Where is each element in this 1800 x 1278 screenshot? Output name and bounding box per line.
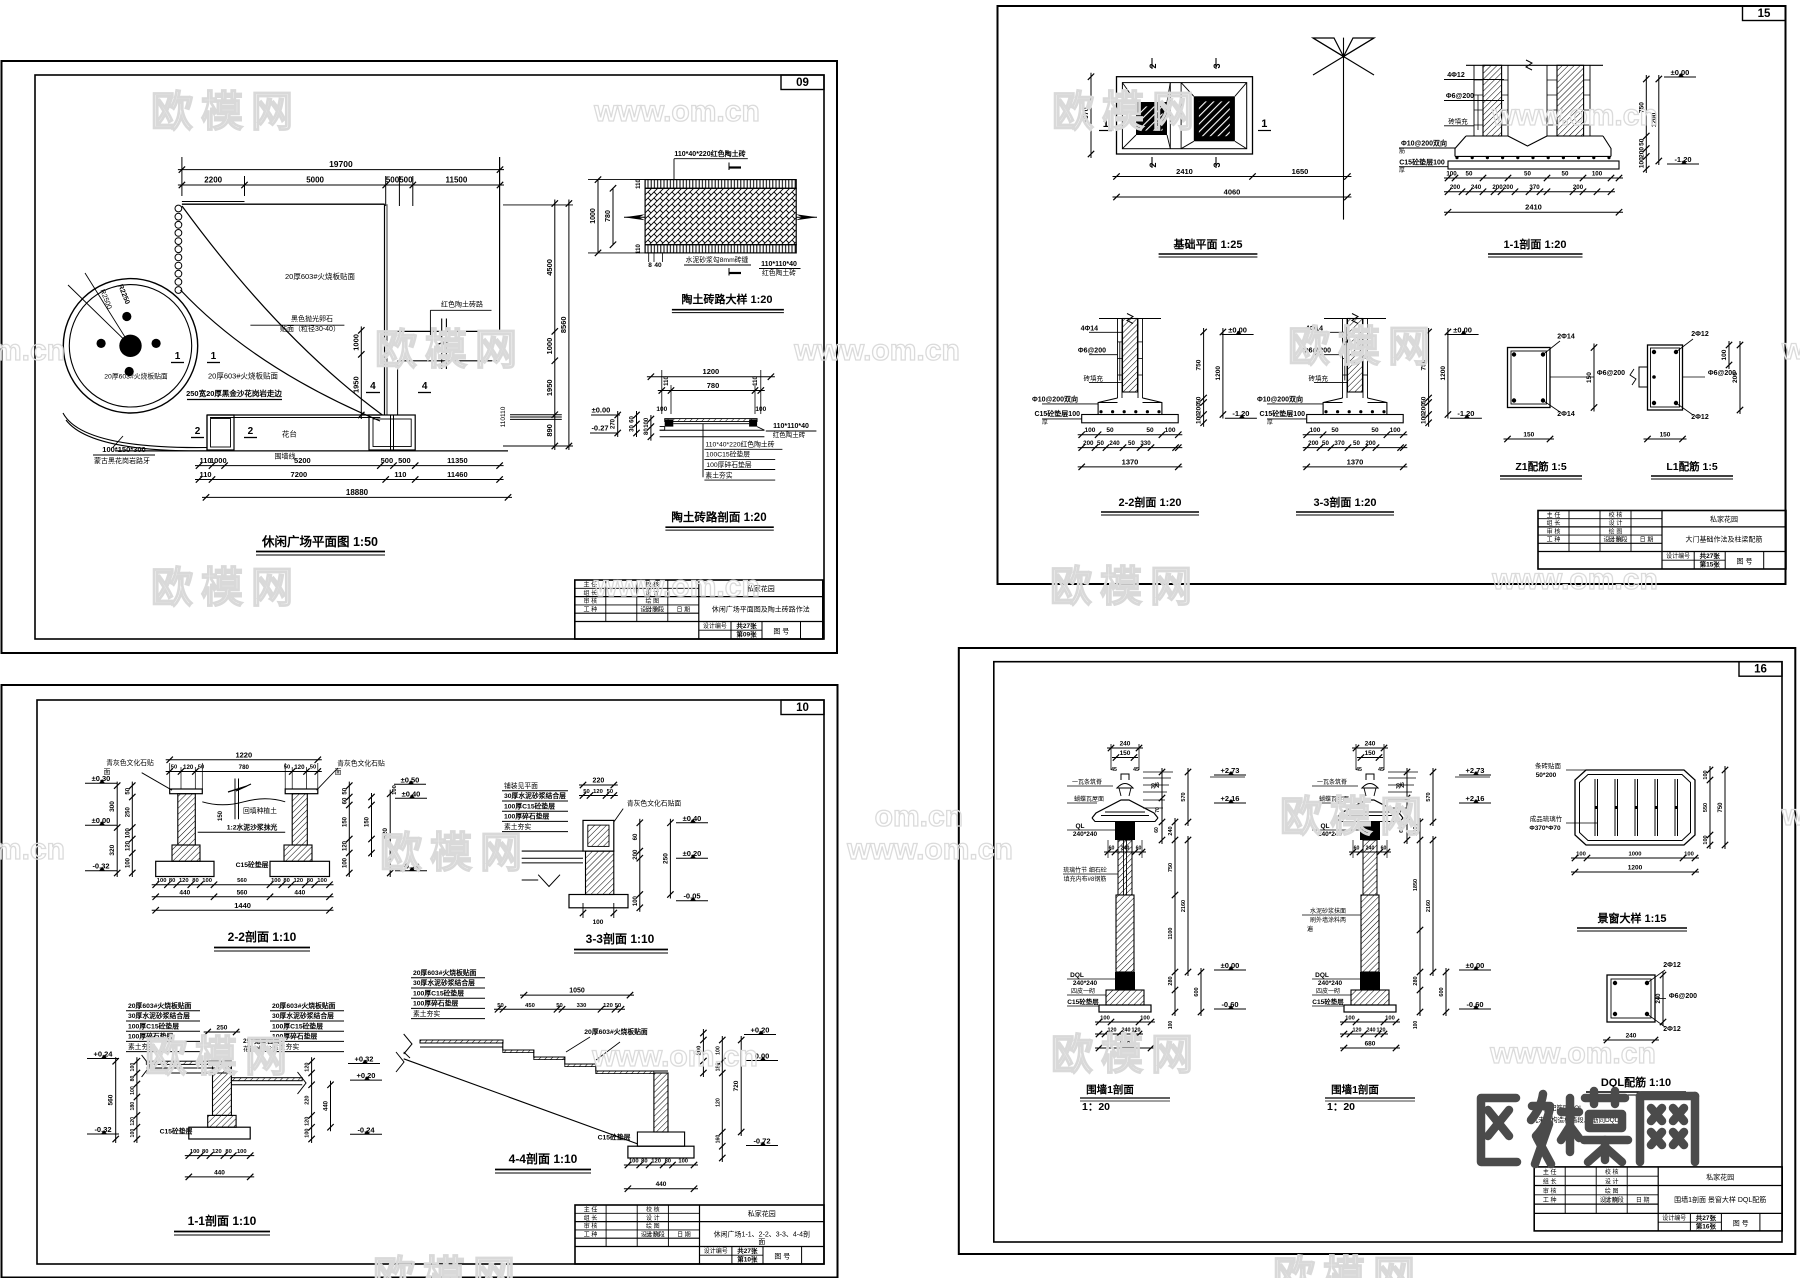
- svg-text:100: 100: [1592, 171, 1603, 178]
- 2-2 label 青灰色文化石贴面 right: [317, 759, 385, 791]
- bedding slab: [1307, 415, 1404, 423]
- svg-text:绘 图: 绘 图: [1609, 527, 1623, 535]
- svg-text:成品琉璃竹: 成品琉璃竹: [1530, 814, 1563, 823]
- svg-text:45: 45: [1356, 767, 1362, 773]
- label 红色陶土砖路 with leader: [430, 300, 491, 336]
- svg-text:500: 500: [381, 456, 394, 465]
- planter right post (path crossing): [369, 415, 415, 450]
- svg-text:红色陶土砖: 红色陶土砖: [762, 268, 796, 277]
- svg-text:370: 370: [1334, 440, 1345, 447]
- bedding slab: [1082, 415, 1179, 423]
- svg-text:花台: 花台: [282, 429, 297, 439]
- svg-text:欧模网: 欧模网: [373, 1253, 523, 1278]
- paving section top dims 1200/780/110: [647, 367, 775, 414]
- svg-text:280: 280: [1413, 976, 1419, 985]
- column formwork side lines: [1118, 319, 1143, 399]
- sheet 15 border: [998, 6, 1786, 584]
- 1-1 right dim chains: [1638, 68, 1699, 173]
- brick detail dims 8 40: [648, 253, 662, 269]
- svg-text:2Φ12: 2Φ12: [1663, 962, 1681, 969]
- svg-text:200: 200: [633, 849, 639, 860]
- svg-text:遍: 遍: [1307, 925, 1313, 933]
- svg-text:80: 80: [169, 878, 175, 884]
- svg-text:200: 200: [1732, 372, 1739, 383]
- svg-text:240: 240: [1120, 741, 1131, 748]
- wall column roof: [1337, 800, 1403, 822]
- labels 琉璃竹节/填充细石砼: [1063, 866, 1118, 883]
- svg-text:www.om.cn: www.om.cn: [846, 833, 1013, 866]
- svg-text:50: 50: [284, 765, 290, 771]
- svg-text:50: 50: [1353, 440, 1360, 447]
- 2-2 left footing: [156, 861, 214, 876]
- svg-text:水泥砂浆抹面: 水泥砂浆抹面: [1310, 907, 1346, 915]
- 2-2 label 1:2水泥沙浆抹光: [198, 823, 286, 833]
- svg-text:680: 680: [1365, 1041, 1376, 1048]
- label C15砼垫层100厚: [1034, 409, 1081, 426]
- svg-text:8560: 8560: [559, 316, 568, 333]
- sheet number box: [781, 75, 824, 90]
- title block sheet numbers: [1666, 551, 1752, 568]
- svg-text:2: 2: [195, 426, 201, 437]
- svg-text:20厚603#火烧板贴面: 20厚603#火烧板贴面: [413, 968, 477, 977]
- bottom dim row1: [1078, 434, 1183, 436]
- svg-text:11500: 11500: [445, 176, 467, 185]
- svg-text:100: 100: [656, 406, 667, 413]
- svg-text:120: 120: [651, 1159, 661, 1165]
- svg-text:100: 100: [125, 857, 131, 868]
- sheet 09 outer border: [2, 61, 838, 653]
- brick detail flow arrows: [624, 214, 817, 220]
- brick detail label 110*110*40红色陶土砖: [759, 261, 801, 277]
- svg-text:220: 220: [305, 1096, 311, 1105]
- svg-text:3: 3: [1212, 162, 1222, 167]
- column shaft hatched core: [1123, 319, 1138, 393]
- svg-text:100厚碎石垫层: 100厚碎石垫层: [706, 460, 752, 469]
- 4-4 slope underside line: [396, 1052, 637, 1144]
- 4-4 top dims 1050 and 50/450/50/330/120/50: [494, 988, 634, 1013]
- svg-text:陶土砖路大样 1:20: 陶土砖路大样 1:20: [681, 292, 772, 306]
- svg-text:Φ6@200: Φ6@200: [1669, 993, 1697, 1000]
- svg-text:第16张: 第16张: [1696, 1221, 1717, 1230]
- svg-text:欧模网: 欧模网: [1051, 1031, 1201, 1078]
- svg-text:厚: 厚: [1042, 419, 1048, 426]
- label 蝴蝶瓦屋面: [1067, 795, 1104, 803]
- svg-text:蒙古黑花岗岩路牙: 蒙古黑花岗岩路牙: [94, 456, 150, 465]
- brick detail left dims 1000/780/110: [588, 176, 650, 256]
- svg-text:3-3剖面 1:20: 3-3剖面 1:20: [1314, 495, 1377, 509]
- svg-text:C15砼垫层100: C15砼垫层100: [1034, 409, 1080, 418]
- 2-2 top dim row2 50/120/50 780 50/120/50: [166, 764, 322, 775]
- plaza plan top dimension row 2200/5000/500/500/11500: [178, 176, 504, 207]
- 1-1 section top line with break: [1466, 60, 1603, 70]
- svg-text:250: 250: [662, 853, 669, 864]
- svg-text:100: 100: [1309, 427, 1320, 434]
- L1 rebar detail: [1630, 331, 1743, 442]
- plaza main circle (double ring): [63, 279, 197, 413]
- svg-text:5200: 5200: [294, 456, 311, 465]
- 4-4 bottom dims: [624, 1159, 698, 1192]
- wall column QL beam (black): [1360, 822, 1380, 840]
- wall section 1 column: [1063, 741, 1246, 1052]
- 2-2 left wall hatched: [172, 794, 200, 862]
- svg-text:110: 110: [664, 376, 670, 386]
- sheet 09 inner border: [35, 75, 824, 639]
- svg-text:100: 100: [1140, 1016, 1150, 1022]
- svg-text:四皮一砌: 四皮一砌: [1316, 987, 1340, 995]
- DQL labels: [1603, 962, 1697, 1043]
- 1-1 paving slab left: [142, 1055, 232, 1077]
- svg-text:2200: 2200: [204, 176, 222, 185]
- brick detail section marks 1: [729, 163, 741, 276]
- svg-text:150: 150: [1660, 432, 1671, 439]
- label Φ10@200双向: [1032, 395, 1098, 404]
- svg-text:设计阶段: 设计阶段: [640, 605, 664, 613]
- svg-text:图 号: 图 号: [1737, 557, 1753, 565]
- svg-text:110*40*220红色陶土砖: 110*40*220红色陶土砖: [674, 149, 745, 158]
- svg-text:180: 180: [130, 1102, 136, 1111]
- label 100*150*300 蒙古黑花岗岩路牙: [93, 436, 155, 465]
- svg-text:砖填充: 砖填充: [1309, 373, 1329, 382]
- svg-text:1950: 1950: [351, 376, 360, 393]
- svg-text:240: 240: [1109, 440, 1120, 447]
- svg-text:审 核: 审 核: [1547, 527, 1561, 535]
- svg-text:1000: 1000: [1629, 852, 1642, 858]
- foundation pad left diagonals: [1122, 83, 1170, 149]
- title block frame: [1538, 511, 1786, 570]
- svg-text:120: 120: [1377, 1028, 1386, 1034]
- svg-text:560: 560: [237, 889, 248, 896]
- svg-text:Φ10@200双向: Φ10@200双向: [1401, 139, 1447, 148]
- svg-text:60: 60: [1381, 846, 1387, 852]
- svg-text:100: 100: [392, 785, 398, 795]
- svg-text:20厚603#火烧板贴面: 20厚603#火烧板贴面: [128, 1001, 192, 1010]
- svg-text:设计阶段: 设计阶段: [641, 1230, 665, 1238]
- svg-text:私家花园: 私家花园: [1710, 515, 1738, 524]
- window label 条砖贴面 50*200: [1535, 761, 1590, 779]
- bottom dims 100/120/240/120/100 680: [1340, 1016, 1400, 1052]
- title block frame: [575, 1205, 824, 1264]
- outer dim chain 8560: [568, 200, 570, 451]
- svg-text:45: 45: [1378, 767, 1384, 773]
- svg-text:Φ370*Φ70: Φ370*Φ70: [1529, 825, 1561, 832]
- foundation plan inner rect: [1122, 83, 1246, 149]
- svg-text:240: 240: [1656, 993, 1662, 1004]
- DQL title: [1586, 1075, 1686, 1095]
- svg-text:50: 50: [198, 765, 204, 771]
- svg-text:100: 100: [1385, 1016, 1395, 1022]
- label 一瓦条筑脊: [1312, 778, 1358, 786]
- 4-4 stair profile: [404, 1034, 668, 1074]
- paving section title 陶土砖路剖面 1:20: [665, 510, 773, 530]
- svg-text:560: 560: [108, 1094, 115, 1105]
- section marks 2 and 3 top: [1148, 58, 1222, 69]
- svg-text:200: 200: [1450, 184, 1461, 191]
- svg-text:500: 500: [398, 456, 411, 465]
- svg-text:100厚C15砼垫层: 100厚C15砼垫层: [272, 1021, 323, 1030]
- svg-text:100*150*300: 100*150*300: [102, 445, 145, 454]
- svg-text:100: 100: [1168, 1021, 1174, 1030]
- svg-text:80: 80: [641, 1159, 647, 1165]
- svg-text:150: 150: [342, 816, 348, 827]
- svg-text:160: 160: [715, 1135, 721, 1144]
- svg-text:120: 120: [603, 1003, 613, 1009]
- svg-text:日 期: 日 期: [1636, 1196, 1650, 1204]
- svg-text:110: 110: [636, 179, 642, 189]
- label 一瓦条筑脊: [1067, 778, 1113, 786]
- footing trapezoid: [1098, 398, 1162, 415]
- svg-text:200: 200: [1196, 403, 1203, 414]
- brick detail top course band: [645, 180, 796, 189]
- svg-text:250宽20厚黑金沙花岗岩走边: 250宽20厚黑金沙花岗岩走边: [186, 388, 282, 398]
- svg-text:20厚603#火烧板贴面: 20厚603#火烧板贴面: [285, 271, 356, 281]
- svg-text:100: 100: [1345, 1016, 1355, 1022]
- label Φ6@200: [1078, 348, 1118, 355]
- svg-text:Φ6@200: Φ6@200: [1078, 348, 1106, 355]
- svg-text:刷外墙涂料两: 刷外墙涂料两: [1310, 916, 1346, 924]
- svg-text:1950: 1950: [545, 379, 554, 396]
- planter left post: [207, 415, 234, 450]
- svg-text:Φ6@200: Φ6@200: [1597, 370, 1625, 377]
- svg-text:120: 120: [593, 789, 603, 795]
- svg-text:私家花园: 私家花园: [748, 1209, 776, 1218]
- svg-text:欧模网: 欧模网: [380, 829, 530, 876]
- planter band 花台: [207, 415, 380, 451]
- svg-text:www.om.cn: www.om.cn: [1491, 563, 1658, 596]
- svg-text:主 任: 主 任: [1547, 511, 1561, 519]
- label 砖填充: [1309, 373, 1348, 382]
- 3-3 right dims: [633, 814, 708, 912]
- level marks: [1210, 766, 1246, 1009]
- svg-text:100: 100: [130, 1063, 136, 1072]
- Z1 rebar detail: [1504, 334, 1626, 443]
- svg-text:日 期: 日 期: [677, 1230, 691, 1238]
- column shaft hatched core: [1348, 319, 1363, 393]
- svg-text:欧模网: 欧模网: [1052, 88, 1202, 135]
- svg-text:30厚水泥砂浆结合层: 30厚水泥砂浆结合层: [413, 978, 475, 987]
- svg-text:110*40*220红色陶土砖: 110*40*220红色陶土砖: [705, 440, 774, 449]
- svg-text:组 长: 组 长: [584, 1214, 598, 1222]
- svg-text:100厚碎石垫层: 100厚碎石垫层: [413, 999, 459, 1008]
- svg-text:220: 220: [593, 778, 605, 785]
- svg-text:www.om.c: www.om.c: [1781, 333, 1800, 366]
- right dim chains: [1413, 768, 1449, 1029]
- 1-1 hatched column right: [1557, 65, 1584, 136]
- svg-text:4060: 4060: [1224, 188, 1241, 197]
- circle small dots: [97, 312, 161, 376]
- svg-text:3: 3: [1212, 63, 1222, 68]
- svg-text:2Φ14: 2Φ14: [1557, 334, 1575, 341]
- label DQL 240*240 四皮一砌: [1312, 972, 1360, 995]
- svg-text:C15砼垫层: C15砼垫层: [160, 1127, 193, 1136]
- svg-text:1000: 1000: [545, 338, 554, 355]
- kerb arc under circle: [63, 413, 207, 451]
- svg-text:4: 4: [370, 381, 376, 392]
- svg-text:1200: 1200: [703, 367, 720, 376]
- svg-text:日 期: 日 期: [676, 605, 690, 613]
- dims 60/240/60 below QL: [1104, 840, 1146, 858]
- svg-text:休闲广场平面图及陶土砖路作法: 休闲广场平面图及陶土砖路作法: [712, 605, 810, 614]
- section mark 2-2 right: [244, 426, 257, 438]
- svg-text:330: 330: [1140, 440, 1151, 447]
- svg-text:设计编号: 设计编号: [703, 622, 727, 630]
- label QL 240*240: [1312, 823, 1360, 838]
- svg-text:40: 40: [654, 262, 662, 269]
- svg-text:欧模网: 欧模网: [1273, 1253, 1423, 1278]
- svg-text:11460: 11460: [447, 470, 467, 479]
- svg-text:120: 120: [342, 840, 348, 851]
- north symbol: [1313, 38, 1374, 220]
- 3-3 wall below: [586, 851, 614, 894]
- 1-1 wall step and footing: [189, 1115, 250, 1139]
- svg-text:110: 110: [199, 470, 211, 479]
- svg-text:100厚C15砼垫层: 100厚C15砼垫层: [128, 1021, 179, 1030]
- svg-text:200: 200: [1638, 147, 1645, 158]
- sheet number box: [1739, 662, 1782, 677]
- svg-text:120: 120: [293, 878, 303, 884]
- paving section layer labels: [703, 424, 782, 480]
- svg-text:设计阶段: 设计阶段: [1600, 1196, 1624, 1204]
- plaza plan top dimension 19700: [178, 157, 504, 196]
- svg-text:C15砼垫层: C15砼垫层: [236, 860, 269, 869]
- svg-text:09: 09: [796, 77, 809, 89]
- svg-text:共27张: 共27张: [736, 621, 757, 630]
- svg-text:120: 120: [179, 878, 189, 884]
- paving section level marks: [590, 406, 654, 441]
- 1-1 label C15砼垫层100厚: [1399, 158, 1448, 175]
- 1-1 left level marks: [87, 1050, 119, 1135]
- svg-text:1:2水泥沙浆抹光: 1:2水泥沙浆抹光: [227, 823, 278, 832]
- section mark 4-4 left: [366, 381, 380, 393]
- svg-text:填充内布#8钢筋: 填充内布#8钢筋: [1064, 875, 1107, 883]
- svg-text:条砖贴面: 条砖贴面: [1535, 761, 1562, 770]
- svg-text:R2500: R2500: [98, 289, 112, 311]
- sheet number box: [1743, 6, 1786, 21]
- svg-text:100: 100: [593, 919, 604, 926]
- title block sheet numbers: [703, 621, 789, 638]
- svg-text:20厚603#火烧板贴面: 20厚603#火烧板贴面: [208, 371, 279, 381]
- svg-text:工 种: 工 种: [1547, 536, 1561, 544]
- title block frame: [575, 580, 823, 639]
- 1-1 bottom dim row1: [1444, 177, 1623, 179]
- svg-text:60: 60: [1154, 827, 1160, 833]
- svg-text:陶土砖路剖面 1:20: 陶土砖路剖面 1:20: [671, 510, 766, 524]
- svg-text:100: 100: [125, 828, 131, 839]
- radius callouts R2250 R2500: [68, 273, 131, 346]
- svg-text:15: 15: [1758, 8, 1771, 20]
- svg-text:1-1剖面 1:10: 1-1剖面 1:10: [188, 1213, 257, 1228]
- svg-text:1200: 1200: [1628, 865, 1643, 872]
- wall column finial: [1117, 774, 1133, 796]
- svg-text:100: 100: [130, 1086, 136, 1095]
- 1-1 label stack left: [126, 1001, 200, 1052]
- svg-text:50*200: 50*200: [1536, 772, 1557, 779]
- sheet 16 outer border: [959, 648, 1796, 1254]
- svg-text:1050: 1050: [569, 988, 585, 995]
- svg-text:欧模网: 欧模网: [1050, 563, 1200, 610]
- svg-text:1200: 1200: [1440, 366, 1447, 381]
- wall return lines 110/110: [500, 406, 562, 427]
- svg-text:50: 50: [1128, 440, 1135, 447]
- 3-3 top dims 220 50/120/50: [579, 778, 618, 799]
- foundation plan bottom dims 2410/1650/4060: [1113, 167, 1352, 200]
- svg-text:厚: 厚: [1267, 419, 1273, 426]
- svg-text:120: 120: [130, 1117, 136, 1126]
- svg-text:1200: 1200: [1215, 366, 1222, 381]
- label DQL 240*240 四皮一砌: [1067, 972, 1115, 995]
- svg-text:150: 150: [365, 816, 371, 827]
- wall column roof: [1092, 800, 1158, 822]
- svg-text:110*110*40: 110*110*40: [773, 423, 809, 430]
- right dim ladder top cluster: [1388, 768, 1418, 844]
- window frame inner octagon: [1580, 775, 1691, 841]
- svg-text:750: 750: [1196, 359, 1203, 370]
- 2-2 left wall cap: [170, 789, 203, 794]
- svg-text:校 核: 校 核: [646, 1206, 660, 1214]
- svg-text:100: 100: [1165, 427, 1176, 434]
- svg-text:16: 16: [1754, 664, 1767, 676]
- svg-text:四皮一砌: 四皮一砌: [1071, 987, 1095, 995]
- svg-text:45: 45: [1133, 767, 1139, 773]
- svg-text:设 计: 设 计: [1609, 519, 1623, 527]
- right dim chain 750/50/200/100: [1428, 328, 1430, 427]
- svg-text:80: 80: [225, 1149, 231, 1155]
- svg-text:100: 100: [644, 417, 650, 428]
- svg-text:面: 面: [758, 1238, 765, 1246]
- svg-text:日 期: 日 期: [1640, 536, 1654, 544]
- svg-text:Z1配筋 1:5: Z1配筋 1:5: [1515, 460, 1567, 473]
- svg-text:120: 120: [715, 1098, 721, 1107]
- svg-text:图 号: 图 号: [1733, 1219, 1749, 1227]
- svg-text:面: 面: [335, 768, 342, 776]
- foundation pad right diagonals: [1181, 83, 1247, 149]
- 3-3 wall cap with hatch: [583, 820, 614, 851]
- brick detail label 110*40*220红色陶土砖: [674, 149, 748, 180]
- wall column top dims 240/150: [1352, 741, 1388, 774]
- svg-text:第15张: 第15张: [1700, 559, 1721, 568]
- svg-text:150: 150: [218, 810, 224, 821]
- 2-2 left levels: [85, 774, 117, 871]
- svg-text:110110: 110110: [500, 406, 507, 427]
- svg-text:C15砼垫层: C15砼垫层: [598, 1133, 631, 1142]
- 4-4 title: [495, 1151, 591, 1173]
- 2-2 right wall hatched: [284, 794, 312, 862]
- svg-text:560: 560: [237, 878, 247, 884]
- 1-1 footing body: [1455, 136, 1611, 156]
- label 4Φ14: [1081, 325, 1122, 332]
- svg-text:100: 100: [633, 895, 639, 906]
- svg-text:青灰色文化石贴面: 青灰色文化石贴面: [627, 799, 682, 808]
- brick detail title 陶土砖路大样 1:20: [672, 292, 784, 313]
- svg-text:校 核: 校 核: [1609, 511, 1623, 519]
- 4-4 right dims and levels: [696, 1026, 778, 1163]
- section mark 1-1 right: [207, 351, 220, 363]
- svg-text:100: 100: [202, 878, 212, 884]
- svg-text:50: 50: [1322, 440, 1329, 447]
- 4-4 label stack: [411, 968, 485, 1019]
- svg-text:主 任: 主 任: [584, 1206, 598, 1214]
- window right dims: [1703, 766, 1728, 849]
- inner dim chain 1000/1950: [360, 326, 362, 419]
- 1-1 middle V notch: [1508, 136, 1547, 146]
- svg-text:工 种: 工 种: [584, 1230, 598, 1238]
- svg-text:30: 30: [630, 425, 636, 432]
- svg-text:150: 150: [1586, 372, 1593, 383]
- svg-text:600: 600: [1194, 987, 1200, 996]
- 3-3 base slab: [569, 895, 628, 908]
- svg-text:C15砼垫层100: C15砼垫层100: [1399, 158, 1445, 167]
- svg-text:一瓦条筑脊: 一瓦条筑脊: [1317, 778, 1347, 786]
- window label 成品琉璃竹: [1529, 814, 1597, 832]
